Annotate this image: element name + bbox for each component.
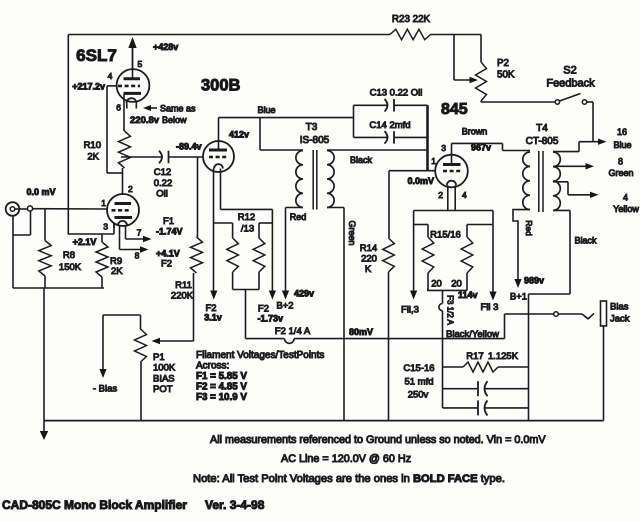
svg-text:8: 8 [618, 157, 623, 167]
svg-text:Black: Black [350, 155, 373, 165]
svg-text:50K: 50K [497, 70, 515, 81]
svg-text:POT: POT [153, 384, 173, 395]
svg-text:1.125K: 1.125K [488, 351, 519, 362]
svg-text:R12: R12 [238, 212, 255, 223]
svg-text:5: 5 [138, 59, 143, 69]
svg-text:Yellow: Yellow [613, 204, 639, 214]
svg-text:S2: S2 [563, 65, 576, 77]
svg-text:Green: Green [608, 168, 633, 178]
svg-text:220K: 220K [171, 291, 194, 302]
svg-text:Bias: Bias [610, 302, 629, 313]
svg-text:+4.1V: +4.1V [156, 249, 180, 259]
svg-text:6SL7: 6SL7 [76, 46, 117, 65]
svg-text:+217.2v: +217.2v [72, 82, 105, 92]
svg-text:2K: 2K [111, 266, 123, 277]
svg-text:C15-16: C15-16 [403, 363, 434, 374]
svg-text:+428v: +428v [153, 42, 178, 52]
svg-text:3.1v: 3.1v [204, 313, 222, 323]
svg-text:Brown: Brown [462, 127, 488, 137]
svg-text:/13: /13 [241, 224, 254, 235]
svg-text:B+2: B+2 [276, 301, 293, 312]
svg-text:C14 2mfd: C14 2mfd [369, 120, 410, 131]
svg-text:F1 = 5.85 V: F1 = 5.85 V [196, 371, 247, 382]
svg-text:20: 20 [451, 279, 462, 290]
svg-text:Fil,3: Fil,3 [401, 305, 419, 316]
svg-text:F2 = 4.85 V: F2 = 4.85 V [196, 382, 247, 393]
svg-text:IS-805: IS-805 [300, 135, 330, 146]
svg-text:150K: 150K [59, 262, 82, 273]
svg-text:8: 8 [135, 251, 140, 261]
svg-text:+2.1V: +2.1V [73, 237, 97, 247]
svg-text:845: 845 [441, 101, 468, 118]
svg-text:3: 3 [103, 222, 108, 232]
svg-text:Feedback: Feedback [546, 78, 595, 90]
svg-text:C12: C12 [154, 167, 171, 178]
svg-text:Black/Yellow: Black/Yellow [446, 329, 499, 340]
svg-text:R23 22K: R23 22K [392, 14, 431, 25]
svg-text:K: K [365, 264, 372, 275]
svg-text:2: 2 [128, 184, 133, 194]
svg-text:Red: Red [290, 212, 307, 222]
svg-text:1: 1 [431, 156, 436, 166]
svg-text:4: 4 [462, 190, 467, 200]
svg-text:Jack: Jack [610, 314, 630, 325]
svg-text:1: 1 [101, 198, 106, 208]
svg-text:2: 2 [438, 190, 443, 200]
svg-text:4: 4 [623, 193, 628, 203]
svg-text:16: 16 [617, 127, 627, 137]
svg-text:CT-805: CT-805 [526, 136, 559, 147]
svg-text:250v: 250v [408, 390, 429, 401]
svg-text:Black: Black [574, 236, 597, 246]
svg-text:CAD-805C Mono Block Amplifier: CAD-805C Mono Block Amplifier [2, 498, 187, 512]
svg-text:F2 1/4 A: F2 1/4 A [275, 326, 311, 337]
svg-text:Blue: Blue [257, 105, 275, 115]
svg-text:300B: 300B [201, 77, 241, 95]
svg-text:R11: R11 [175, 280, 192, 291]
svg-text:7: 7 [137, 228, 142, 238]
svg-text:P2: P2 [497, 58, 509, 69]
svg-text:T3: T3 [306, 122, 318, 133]
svg-text:Green: Green [347, 220, 357, 245]
svg-text:R10: R10 [84, 140, 101, 151]
svg-text:AC Line = 120.0V @ 60 Hz: AC Line = 120.0V @ 60 Hz [281, 453, 411, 465]
svg-text:0.0mV: 0.0mV [407, 176, 434, 186]
svg-text:51 mfd: 51 mfd [404, 377, 433, 388]
svg-text:989v: 989v [524, 276, 544, 286]
svg-text:0.22: 0.22 [154, 178, 173, 189]
svg-text:Filament Voltages/TestPoints: Filament Voltages/TestPoints [196, 350, 324, 361]
svg-text:R14: R14 [360, 243, 377, 254]
svg-text:-1.74V: -1.74V [156, 227, 183, 237]
svg-text:All measurements referenced to: All measurements referenced to Ground un… [210, 434, 546, 446]
svg-text:20: 20 [431, 279, 442, 290]
svg-text:R17: R17 [466, 351, 483, 362]
svg-text:R8: R8 [63, 250, 75, 261]
svg-text:Blue: Blue [613, 140, 631, 150]
svg-text:F2: F2 [161, 259, 172, 270]
svg-text:100K: 100K [153, 363, 176, 374]
svg-text:Below: Below [162, 115, 187, 125]
svg-text:R15/16: R15/16 [430, 230, 461, 241]
svg-text:0.0 mV: 0.0 mV [26, 187, 55, 197]
svg-text:T4: T4 [536, 123, 548, 134]
svg-text:-89.4v: -89.4v [176, 142, 202, 152]
svg-text:-1.73v: -1.73v [257, 314, 283, 324]
svg-text:F3 = 10.9 V: F3 = 10.9 V [196, 392, 247, 403]
svg-text:80mV: 80mV [349, 327, 373, 337]
svg-text:Same as: Same as [160, 104, 196, 114]
svg-text:220: 220 [361, 254, 377, 265]
svg-text:Oil: Oil [156, 189, 168, 200]
svg-text:412v: 412v [229, 130, 249, 140]
svg-text:C13 0.22 Oil: C13 0.22 Oil [370, 88, 423, 99]
svg-text:Red: Red [524, 220, 534, 236]
svg-text:220.8v: 220.8v [130, 115, 160, 126]
svg-text:Note: All Test Point Voltages: Note: All Test Point Voltages are the on… [193, 473, 505, 485]
svg-text:B+1: B+1 [510, 292, 527, 303]
svg-text:6: 6 [116, 103, 121, 113]
svg-text:4: 4 [108, 71, 113, 81]
svg-text:Across:: Across: [196, 361, 229, 372]
svg-text:F1: F1 [163, 216, 174, 227]
svg-text:Ver. 3-4-98: Ver. 3-4-98 [205, 498, 265, 512]
svg-text:Fil 3: Fil 3 [481, 302, 499, 313]
svg-text:429v: 429v [294, 289, 314, 299]
svg-text:3: 3 [441, 143, 446, 153]
svg-text:2K: 2K [87, 152, 99, 163]
svg-text:BIAS: BIAS [153, 374, 175, 385]
svg-text:- Bias: - Bias [93, 384, 118, 395]
svg-text:F3 1/2 A: F3 1/2 A [446, 295, 455, 325]
svg-text:114v: 114v [458, 290, 478, 300]
svg-text:P1: P1 [153, 352, 165, 363]
